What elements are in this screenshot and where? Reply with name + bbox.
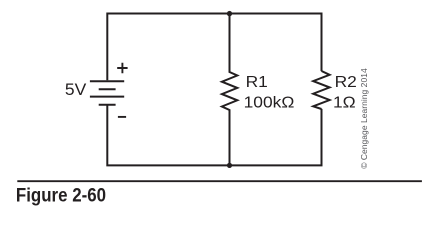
svg-text:100kΩ: 100kΩ	[244, 94, 295, 111]
svg-text:R1: R1	[246, 74, 268, 91]
svg-text:Figure 2-60: Figure 2-60	[16, 184, 106, 205]
svg-text:1Ω: 1Ω	[333, 94, 356, 111]
svg-text:R2: R2	[335, 74, 357, 91]
svg-text:© Cengage Learning 2014: © Cengage Learning 2014	[359, 68, 369, 169]
svg-text:5V: 5V	[65, 81, 87, 99]
